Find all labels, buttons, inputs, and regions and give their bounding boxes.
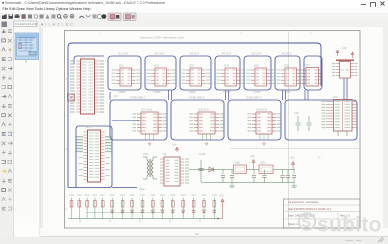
op IC7 74HC595	[299, 63, 322, 86]
status marks	[345, 240, 361, 242]
svg-text:ROW DRV 1: ROW DRV 1	[131, 96, 147, 100]
capacitor C2	[230, 170, 234, 183]
connector SV2	[322, 95, 357, 136]
svg-text:74595: 74595	[283, 90, 291, 94]
svg-text:1: 1	[25, 60, 27, 64]
svg-text:S: S	[302, 215, 312, 231]
svg-text:S6 OUT: S6 OUT	[282, 52, 292, 56]
svg-text:A: A	[66, 77, 68, 81]
svg-text:subito: subito	[317, 214, 382, 237]
svg-text:ROW DRV 3: ROW DRV 3	[247, 96, 263, 100]
bus loop L1g	[304, 56, 322, 90]
sheets panel	[14, 27, 40, 237]
resistor R9	[140, 194, 145, 218]
node label N2a	[131, 96, 147, 100]
resistor R12	[171, 194, 176, 218]
svg-text:C: C	[66, 207, 68, 211]
op IC8 driver	[190, 108, 224, 135]
power arrow P5	[218, 195, 224, 219]
crystal Q1	[68, 94, 75, 101]
wire bottom rail	[68, 218, 218, 220]
diode D7	[171, 210, 174, 213]
resistor R13	[181, 194, 186, 218]
connector J2	[77, 125, 112, 182]
svg-text:S2 OUT: S2 OUT	[155, 52, 165, 56]
menu bar	[0, 7, 388, 13]
capacitor C5	[281, 170, 285, 183]
toolbar1 icons	[2, 14, 106, 19]
svg-text:+5V: +5V	[219, 195, 224, 198]
status bar	[0, 236, 388, 244]
resistor R3	[85, 194, 90, 218]
bus loop L1b	[145, 56, 176, 90]
diode D5	[151, 210, 154, 213]
frame column divider	[288, 31, 290, 229]
capacitor C10	[294, 112, 301, 131]
bus loop L2d	[285, 100, 357, 140]
svg-text:f.lli elettronica - led displa: f.lli elettronica - led display	[288, 200, 319, 204]
toolbar1 script buttons	[108, 13, 136, 21]
svg-text:IC4: IC4	[224, 64, 229, 68]
svg-text:v.link: v.link	[139, 187, 145, 191]
bottom scrollbar	[40, 228, 388, 236]
bus loop L2a	[110, 100, 167, 140]
svg-text:X2: X2	[163, 152, 167, 156]
canvas	[43, 27, 383, 234]
op IC3 74HC595	[182, 64, 211, 95]
op IC5 74HC595	[247, 64, 276, 95]
resistor R8	[130, 194, 135, 218]
bus loop L1d	[215, 56, 240, 90]
watermark subito	[299, 213, 382, 236]
op IC2 74HC595	[147, 64, 176, 95]
power arrow P2	[172, 144, 179, 153]
svg-text:+5V: +5V	[172, 144, 177, 147]
svg-text:B: B	[66, 147, 68, 151]
palette icons	[2, 30, 12, 211]
power arrow P4	[289, 157, 295, 170]
bus B2 right drop	[344, 78, 347, 100]
resistor R16	[212, 194, 217, 218]
ground GND1	[229, 183, 235, 188]
node label N1c	[190, 52, 200, 56]
right scrollbar	[383, 27, 388, 234]
svg-text:74595: 74595	[223, 90, 231, 94]
transformer TR1	[143, 152, 157, 179]
diode D11	[213, 210, 216, 213]
node label N2c	[247, 96, 263, 100]
op IC1 74HC595	[112, 64, 141, 95]
toolbar2 icon	[2, 22, 8, 28]
capacitor C11	[307, 116, 312, 131]
junction dot	[217, 218, 219, 220]
svg-text:LED MATRIX DISPLAY 10x80 v2.1: LED MATRIX DISPLAY 10x80 v2.1	[288, 207, 332, 211]
bus loop L1c	[180, 56, 211, 90]
bus link rows L12d	[305, 90, 308, 100]
capacitor C7	[292, 170, 296, 183]
svg-text:IC3: IC3	[189, 64, 194, 68]
diode D20	[209, 167, 214, 172]
bus loop L1a	[108, 56, 141, 90]
svg-text:S4 OUT: S4 OUT	[222, 52, 232, 56]
svg-text:7812: 7812	[260, 161, 266, 165]
bus link rows L12a	[169, 90, 172, 100]
bus stub row2 left	[109, 92, 111, 100]
section labels	[114, 94, 206, 191]
diode D8	[182, 210, 185, 213]
toolbar row 1	[0, 13, 388, 22]
power +5V P1	[336, 47, 354, 58]
frame section labels	[66, 31, 313, 211]
resistor R14	[191, 194, 196, 218]
connector J1	[70, 55, 104, 115]
bus loop L2b	[171, 100, 224, 140]
svg-text:IC5: IC5	[254, 64, 259, 68]
capacitor C4	[263, 170, 267, 183]
power arrow P3	[250, 155, 255, 170]
bus loop L3 connector wrap	[68, 126, 137, 188]
svg-text:7805: 7805	[234, 161, 240, 165]
svg-text:S1 OUT: S1 OUT	[119, 52, 129, 56]
diode D2	[121, 210, 124, 213]
resistor R7	[120, 194, 125, 218]
regulator IC11 7812	[259, 161, 273, 174]
op IC9 driver	[248, 108, 281, 135]
bus loop L2c	[228, 100, 281, 140]
svg-text:IC7 ULN: IC7 ULN	[141, 108, 152, 112]
op IC4 74HC595	[217, 64, 246, 95]
svg-text:■ i □ A 1 □ E C: ■ i □ A 1 □ E C	[41, 23, 73, 27]
op IC6 74HC595	[277, 64, 306, 95]
node label N1d	[222, 52, 232, 56]
bus loop L1e	[244, 56, 271, 90]
bus link rows L12b	[226, 90, 229, 100]
svg-text:SV2: SV2	[333, 95, 339, 99]
bus loop L1f	[275, 56, 300, 90]
op IC7 driver	[133, 108, 167, 135]
svg-text:74595: 74595	[188, 90, 196, 94]
resistor R11	[160, 194, 165, 218]
command line field	[14, 223, 38, 236]
bus branch row2	[112, 120, 139, 122]
net label bottom SV2	[318, 156, 321, 159]
resistor R10	[151, 194, 156, 218]
ground GND2	[291, 183, 297, 188]
toolbar row 2	[0, 21, 388, 28]
resistor R6	[110, 194, 115, 218]
resize grip	[378, 237, 384, 242]
frame row divider	[230, 148, 360, 150]
svg-text:matrice led 10x80 - shift regi: matrice led 10x80 - shift register chain	[140, 36, 184, 40]
svg-text:+5V: +5V	[342, 47, 347, 50]
svg-text:IC6: IC6	[284, 64, 289, 68]
node label N1f	[282, 52, 292, 56]
toolbar2 coordinate display	[14, 21, 38, 27]
wire net VIN	[189, 169, 295, 171]
svg-text:74595: 74595	[253, 90, 261, 94]
diode D9	[192, 210, 195, 213]
wire stubs IC7	[146, 134, 154, 146]
svg-text:IC9 ULN: IC9 ULN	[256, 108, 267, 112]
svg-text:JP2: JP2	[86, 125, 91, 129]
bus B1 top rail	[68, 43, 321, 188]
diode D10	[202, 210, 205, 213]
wire stubs IC8	[203, 134, 211, 146]
left tool palette	[0, 27, 14, 237]
svg-text:74595: 74595	[118, 90, 126, 94]
capacitor C6	[286, 170, 290, 183]
ground rail	[201, 182, 294, 184]
svg-text:74595: 74595	[153, 90, 161, 94]
regulator IC10 7805	[234, 161, 247, 174]
svg-text:0.1 inch (4.1 2.3): 0.1 inch (4.1 2.3)	[15, 22, 38, 26]
node label N1e	[252, 52, 262, 56]
resistor R1	[69, 194, 74, 218]
connector X2	[160, 152, 189, 186]
svg-text:IC7: IC7	[305, 63, 310, 67]
svg-text:C10: C10	[294, 112, 299, 115]
svg-text:+12V: +12V	[289, 157, 295, 160]
capacitor C1	[221, 170, 225, 183]
bus link rows L12c	[283, 90, 286, 100]
svg-text:JP1: JP1	[80, 55, 85, 59]
bus stub row1 left	[74, 56, 104, 64]
window title bar	[0, 0, 388, 7]
svg-text:S3 OUT: S3 OUT	[190, 52, 200, 56]
connector X1	[332, 60, 358, 78]
svg-text:IC8 ULN: IC8 ULN	[198, 108, 209, 112]
svg-text:+5V: +5V	[250, 155, 255, 158]
wire below-rail stubs	[80, 219, 200, 223]
svg-text:IC2: IC2	[154, 64, 159, 68]
svg-text:S5 OUT: S5 OUT	[252, 52, 262, 56]
resistor R5	[100, 194, 105, 218]
sheet thumbnail	[15, 33, 39, 64]
resistor R4	[93, 194, 98, 218]
node label N1a	[119, 52, 129, 56]
diode D1	[111, 210, 114, 213]
sheet label top	[140, 36, 184, 40]
svg-text:ROW DRV 2: ROW DRV 2	[190, 96, 206, 100]
elcap C20	[199, 160, 204, 182]
sheet frame	[65, 31, 361, 229]
diode D4	[141, 210, 144, 213]
capacitor C3	[252, 170, 256, 183]
resistor R15	[202, 194, 207, 218]
diode D3	[130, 210, 133, 213]
svg-text:ALIM.: ALIM.	[199, 152, 206, 156]
title block	[284, 199, 361, 228]
diode D6	[161, 210, 164, 213]
resistor R2	[77, 194, 82, 218]
wire stubs IC9	[260, 134, 268, 146]
node label N2b	[190, 96, 206, 100]
svg-text:IC1: IC1	[119, 64, 124, 68]
svg-text:TR1: TR1	[143, 152, 149, 156]
node label N1b	[155, 52, 165, 56]
wire mid rail	[86, 212, 160, 214]
